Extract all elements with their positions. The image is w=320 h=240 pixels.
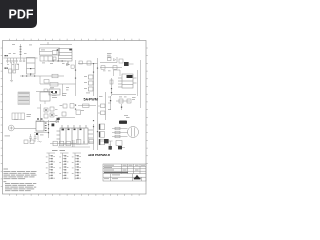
marks below y67.5 [103,70,111,73]
relay K1 dark body [124,62,129,66]
Q1 label [50,86,54,89]
buzzer BZ1 [128,127,139,138]
PDF badge [0,0,37,28]
box x119 [119,59,123,63]
vertical x62.5 [62,84,64,96]
relay RL1 cluster [9,62,19,82]
fuse holder column [20,44,22,58]
label under M1 [5,119,19,136]
wire y63.5 [78,63,98,65]
snubber quad boxes [44,107,54,118]
resistor boxes on y67.5 [101,66,105,70]
T1 tap pips [45,123,47,132]
flat box on bus y84 [50,83,58,87]
wire: main input bus [4,57,38,59]
wire y91.5 [36,91,52,93]
frame tick marks bottom [10,194,140,196]
box on left rail [110,80,113,84]
bottom bus y121.5 [36,121,58,123]
marks above dark label [124,115,130,118]
controller U3 [118,74,137,88]
label stack [107,53,112,57]
U3 dark label [127,75,133,78]
corner wire to y84 [39,76,41,84]
right row3 cluster [111,96,132,110]
bus y84 [40,83,76,85]
resistor R2 on bus y76 [52,74,58,78]
frame tick marks right [146,48,148,164]
component box below table [12,113,25,120]
AEM logo [134,175,141,180]
drop from bus to comps x66-70 [67,61,69,65]
X1 junction dots [30,68,31,75]
output filter chain [50,140,76,147]
rail x93.5 [93,64,95,96]
dark label right cluster [119,121,127,124]
transformer T1 primary box [40,92,50,101]
labels right of T1 [50,89,67,98]
frame tick marks top [10,39,140,41]
L wire loop [114,70,121,76]
T1 top pips [37,118,39,119]
chain labels [84,76,87,89]
rail x48.5 pips [48,124,49,133]
diode cluster boxes [62,104,81,117]
Q1 inner pips [51,91,53,93]
cluster labels [119,97,136,100]
diode marks x113-117 [114,59,116,61]
title block row texts [104,165,145,179]
vertical rail x105 [105,92,107,120]
drop wire right of U1 [66,61,70,66]
wires near dark component [100,141,113,150]
strip header text [52,149,65,152]
stub below T1 [44,101,46,104]
dark component 3 [118,146,122,149]
chain resistors on rail [89,75,94,91]
IC U1 [59,49,73,62]
bus y76 [20,75,64,77]
EMI filter box A [40,48,60,55]
wire y62.5 [100,57,117,63]
box A dark dot [57,49,59,50]
junction dots near rails [93,120,98,132]
output modules stack [99,124,105,145]
dark pip on line [36,133,38,135]
box on wire left [79,61,82,64]
wire from K1 [129,63,134,65]
dark dot component [52,124,55,127]
bus below boxes [48,60,66,62]
boxes on rail x105 [98,97,111,115]
snubber left rail [37,104,41,122]
connector J1 terminal pips [5,55,6,56]
capacitor C13 [34,134,37,142]
marks below [40,134,44,137]
U4 top pin pips [62,129,82,131]
frame tick marks left [1,48,3,187]
tiny labels below caps [7,63,19,66]
svg-text:PDF: PDF [9,8,34,22]
diode cluster label [60,104,63,107]
U1 dark pin mark [69,49,72,51]
bottom line from T1 [34,133,48,141]
label specks row3 center [81,93,111,111]
svg-text:5A∕PWM: 5A∕PWM [84,98,98,102]
resistor ladder to BZ1 [112,127,128,138]
stub near dark component 3 [122,147,125,149]
capacitor C12 [29,134,32,142]
connector J5 [116,141,122,146]
rails right of U4 [93,124,95,150]
box on wire right [87,61,91,65]
marks right of Q1 [66,87,69,90]
transistor Q1 cluster [49,89,60,95]
box A inner label [41,49,45,52]
long rail x97.5 [97,58,99,150]
dark tiny rect above IC [57,118,60,120]
detail strip 3 [73,153,82,180]
dark model text in title block [104,172,128,173]
small box on wire [44,89,47,92]
fan motor M1 [8,125,36,131]
small box mid chain [89,140,93,144]
dark component right chain [104,139,109,143]
EMI filter box B [40,56,56,61]
snubber labels [55,109,58,116]
main output IC U4 [57,125,94,144]
U4 under-line [58,146,90,148]
diode D1 [67,63,69,66]
cluster pips [110,100,122,108]
left rail x111.5 [111,78,113,96]
rail x48.5 [48,120,50,138]
filter column X1 [27,58,36,77]
junction dots rails [93,63,98,73]
pips on bus y76 [22,75,35,76]
schematic sheet frame [3,41,147,195]
small box above bus y84 [44,80,49,84]
rail x75.5 lower pips [75,105,76,110]
dark component 2 [109,146,112,150]
resistor R20 with leads [78,104,96,107]
capacitors hanging below bus [6,58,25,63]
diode D6 [50,120,59,123]
cap pair [24,140,42,144]
rail x75.5 dots [75,70,76,79]
bus y94.5 [112,94,136,96]
wire: upper feedback line [40,42,72,45]
label specks near U1 [42,63,65,64]
comps near rail x75.5 [71,60,76,96]
snubber dark dots [45,109,52,115]
connector J2 terminal pips [5,68,6,69]
detail strip 1 [47,153,56,180]
label specks above bus [9,44,33,54]
right rails [138,60,141,108]
box right of chain [77,140,86,145]
label right of box [27,114,32,117]
pips lower left rail [111,88,112,93]
svg-text:aEM PS/PWM-R: aEM PS/PWM-R [88,153,111,157]
wire y117.5 [58,117,75,119]
detail strip 2 [60,153,69,180]
wire y67.5 [100,67,122,69]
transformer T1 secondary box [36,121,44,131]
junction pips on bus [53,60,63,61]
small box x107.5 [108,58,112,61]
